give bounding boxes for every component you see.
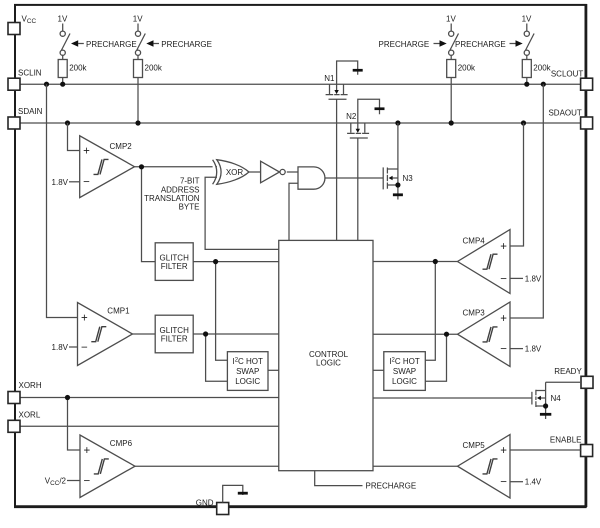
- svg-text:PRECHARGE: PRECHARGE: [455, 40, 506, 49]
- precharge switch S3 (1V): [446, 15, 459, 60]
- comparator CMP2: [52, 123, 135, 198]
- svg-text:−: −: [83, 475, 90, 487]
- svg-text:+: +: [81, 312, 88, 324]
- node glitch filter 1 output: [213, 259, 218, 264]
- svg-text:CMP4: CMP4: [463, 237, 486, 246]
- svg-text:ENABLE: ENABLE: [550, 436, 582, 445]
- block glitch filter 2: [155, 315, 193, 353]
- block glitch filter 1: [155, 243, 193, 281]
- svg-text:−: −: [81, 342, 88, 354]
- svg-text:READY: READY: [554, 367, 582, 376]
- wire AND lower input from control logic: [289, 183, 298, 240]
- svg-text:−: −: [83, 177, 90, 189]
- ground connection at GND pin: [223, 485, 248, 502]
- svg-text:SCLIN: SCLIN: [18, 68, 42, 77]
- svg-text:LOGIC: LOGIC: [316, 359, 341, 368]
- svg-text:200k: 200k: [69, 64, 87, 73]
- wire glitch filter 1 output to control logic: [193, 262, 279, 361]
- wire XORH line to control logic: [20, 397, 279, 399]
- pin XORH: [8, 381, 42, 403]
- svg-text:PRECHARGE: PRECHARGE: [366, 482, 417, 491]
- gate AND U3: [298, 167, 325, 189]
- svg-text:200k: 200k: [145, 64, 163, 73]
- pin SDAIN: [8, 107, 43, 129]
- wire I2C hot swap right to control logic: [373, 369, 384, 371]
- node CMP4 output: [433, 259, 438, 264]
- resistor R1 200k: [58, 60, 87, 85]
- svg-text:N2: N2: [346, 112, 357, 121]
- inverter U2: [261, 161, 286, 183]
- svg-text:SCLOUT: SCLOUT: [551, 70, 584, 79]
- pin SDAOUT: [548, 109, 592, 130]
- wire CMP6 output to control logic: [135, 465, 279, 467]
- precharge switch S2 (1V): [133, 15, 146, 60]
- comparator CMP6: [45, 398, 135, 498]
- wire N2 gate to control logic: [357, 138, 359, 240]
- svg-text:1V: 1V: [446, 15, 456, 24]
- wire inverter output to AND gate: [287, 171, 298, 173]
- svg-text:LOGIC: LOGIC: [235, 377, 260, 386]
- svg-text:200k: 200k: [533, 64, 551, 73]
- wire CMP2 output to XOR and glitch filter 1: [135, 167, 218, 262]
- node XORH junction: [65, 395, 70, 400]
- wire I2C hot swap left to control logic: [268, 369, 279, 371]
- svg-text:N1: N1: [324, 74, 335, 83]
- node glitch filter 2 output: [203, 331, 208, 336]
- wire CMP3 output to control logic and I2C hot swap right: [373, 334, 458, 381]
- pin VCC: [8, 15, 36, 35]
- svg-text:BYTE: BYTE: [179, 203, 200, 212]
- svg-text:CMP2: CMP2: [110, 142, 133, 151]
- transistor N2 (pass FET on SDA): [346, 99, 384, 138]
- node CMP3 output: [444, 332, 449, 337]
- svg-text:CMP1: CMP1: [107, 307, 130, 316]
- svg-text:CMP5: CMP5: [463, 441, 486, 450]
- svg-text:1V: 1V: [133, 15, 143, 24]
- pin ENABLE: [550, 436, 593, 457]
- svg-text:1.8V: 1.8V: [525, 345, 542, 354]
- gate XOR: [213, 160, 249, 185]
- wire glitch filter 2 output to control logic: [193, 334, 279, 381]
- svg-text:PRECHARGE: PRECHARGE: [86, 40, 137, 49]
- svg-text:FILTER: FILTER: [161, 262, 188, 271]
- transistor N1 (pass FET on SCL): [324, 61, 362, 99]
- svg-text:GLITCH: GLITCH: [160, 326, 190, 335]
- svg-text:GLITCH: GLITCH: [160, 253, 190, 262]
- svg-text:ADDRESS: ADDRESS: [161, 185, 200, 194]
- wire XOR output to inverter: [249, 171, 261, 173]
- svg-text:CMP3: CMP3: [463, 309, 486, 318]
- wire SCL bus (SCLIN to SCLOUT): [20, 83, 581, 85]
- wire CMP1 output to glitch filter 2: [133, 333, 156, 335]
- pin GND: [196, 499, 229, 515]
- resistor R3 200k: [447, 60, 476, 124]
- pin READY: [554, 367, 593, 388]
- svg-text:+: +: [83, 145, 90, 157]
- svg-text:CONTROL: CONTROL: [309, 350, 349, 359]
- resistor R4 200k: [522, 60, 551, 85]
- precharge switch S4 (1V): [522, 15, 535, 60]
- svg-text:PRECHARGE: PRECHARGE: [379, 40, 430, 49]
- arrow PRECHARGE label S2: [146, 40, 212, 49]
- wire SDA bus (SDAIN to SDAOUT): [20, 122, 581, 124]
- pin SCLOUT: [551, 70, 593, 91]
- svg-text:SDAIN: SDAIN: [18, 107, 43, 116]
- svg-text:XORH: XORH: [19, 381, 42, 390]
- svg-text:1V: 1V: [522, 15, 532, 24]
- svg-text:+: +: [500, 445, 507, 457]
- svg-text:LOGIC: LOGIC: [392, 377, 417, 386]
- svg-text:1.8V: 1.8V: [52, 178, 69, 187]
- transistor N4: [373, 382, 581, 419]
- wire XORL line to control logic: [20, 425, 279, 427]
- svg-text:200k: 200k: [458, 64, 476, 73]
- svg-text:N4: N4: [551, 394, 562, 403]
- svg-text:XOR: XOR: [226, 168, 244, 177]
- block control logic: [279, 240, 373, 470]
- wire XOR lower input from control logic: [205, 177, 279, 249]
- svg-text:CMP6: CMP6: [110, 439, 133, 448]
- svg-text:SDAOUT: SDAOUT: [548, 109, 581, 118]
- svg-text:PRECHARGE: PRECHARGE: [161, 40, 212, 49]
- svg-text:FILTER: FILTER: [161, 335, 188, 344]
- svg-text:−: −: [500, 477, 507, 489]
- svg-text:TRANSLATION: TRANSLATION: [144, 194, 200, 203]
- comparator CMP4: [458, 123, 542, 294]
- wire CMP4 output to control logic and I2C hot swap right: [373, 262, 458, 361]
- svg-text:1V: 1V: [58, 15, 68, 24]
- label 7-bit address translation byte: [144, 177, 200, 212]
- svg-text:+: +: [500, 313, 507, 325]
- svg-text:1.8V: 1.8V: [52, 343, 69, 352]
- svg-text:7-BIT: 7-BIT: [180, 177, 200, 186]
- svg-text:SWAP: SWAP: [236, 367, 259, 376]
- node CMP2 output: [139, 164, 144, 169]
- comparator CMP1: [47, 84, 133, 365]
- wire N1 gate to control logic: [336, 99, 338, 240]
- junction dots on SCL bus: [44, 82, 49, 87]
- svg-text:SWAP: SWAP: [393, 367, 416, 376]
- svg-text:−: −: [500, 344, 507, 356]
- pin XORL: [8, 410, 41, 432]
- block I2C hot swap logic (right): [384, 352, 426, 391]
- svg-text:1.4V: 1.4V: [525, 478, 542, 487]
- arrow PRECHARGE label S1: [71, 40, 137, 49]
- svg-text:1.8V: 1.8V: [525, 274, 542, 283]
- comparator CMP5: [458, 435, 581, 499]
- svg-text:−: −: [500, 273, 507, 285]
- svg-text:+: +: [500, 241, 507, 253]
- pin SCLIN: [8, 68, 42, 90]
- block I2C hot swap logic (left): [227, 352, 268, 391]
- svg-text:XORL: XORL: [19, 410, 41, 419]
- svg-text:+: +: [83, 445, 90, 457]
- wire PRECHARGE from control logic: [315, 471, 416, 491]
- label PRECHARGE arrow S4: [455, 40, 523, 49]
- junction dots on SDA bus: [65, 120, 70, 125]
- svg-text:I2C HOT: I2C HOT: [232, 357, 263, 366]
- wire CMP5 output to control logic: [373, 465, 458, 467]
- label PRECHARGE arrow S3: [379, 40, 447, 49]
- resistor R2 200k: [134, 60, 163, 124]
- svg-text:N3: N3: [403, 174, 414, 183]
- precharge switch S1 (1V): [58, 15, 71, 60]
- transistor N3: [383, 123, 413, 200]
- wire AND output to N3 gate: [325, 177, 383, 179]
- svg-text:GND: GND: [196, 499, 214, 508]
- comparator CMP3: [458, 84, 544, 366]
